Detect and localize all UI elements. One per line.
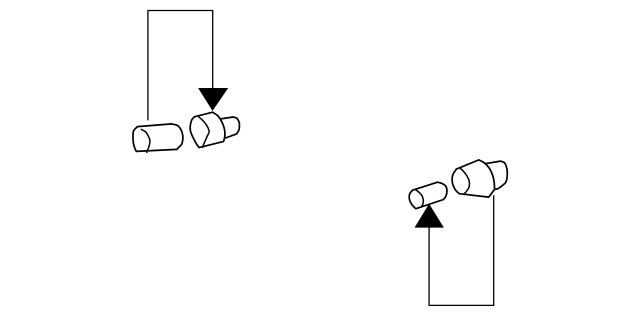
socket S2 small cylinder bbox=[485, 161, 507, 189]
leader bracket (bottom pair) bbox=[429, 195, 494, 305]
arrowhead pointing down at socket S1 bbox=[198, 88, 228, 111]
socket S1 face arc bbox=[199, 117, 209, 147]
bulb B2 body bbox=[409, 182, 447, 209]
socket S1 main body bbox=[190, 112, 225, 147]
socket S2 main body bbox=[452, 160, 494, 197]
bulb B2 face arc bbox=[416, 190, 424, 207]
arrowhead pointing up at bulb B2 bbox=[415, 204, 444, 228]
bulb B1 body bbox=[133, 124, 183, 151]
bulb B1 face arc bbox=[141, 129, 150, 152]
socket S2 face arc bbox=[460, 168, 469, 194]
leader bracket (top pair) bbox=[148, 11, 213, 121]
socket S1 small cylinder bbox=[220, 117, 239, 138]
